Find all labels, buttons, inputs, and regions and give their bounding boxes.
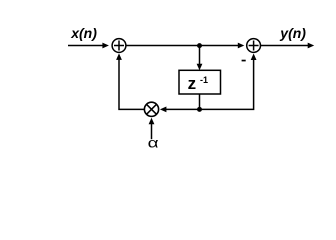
wire: alpha input rising into multiplier [151, 123, 153, 139]
minus sign at A2 lower-left input [242, 60, 246, 62]
svg-text:y(n): y(n) [279, 25, 306, 41]
wire: delay block bottom to bottom junction [199, 94, 201, 109]
arrowhead into A2 bottom [251, 54, 257, 61]
svg-text:-1: -1 [200, 75, 208, 85]
node: junction dot on bottom wire [197, 107, 202, 112]
arrowhead output y(n) [308, 43, 315, 49]
arrowhead into adder A1 left [102, 43, 109, 49]
delay block z^-1 rectangle [179, 70, 221, 94]
wire: bottom feedback left segment into multiplier [165, 108, 200, 110]
wire: bottom feedback right segment and up to A2 [200, 59, 254, 109]
svg-text:z: z [188, 74, 197, 93]
arrowhead into M1 bottom [149, 118, 155, 125]
adder A1 circle [112, 39, 126, 53]
arrowhead into delay block top [197, 64, 203, 71]
wire: A1 output to A2 [126, 45, 238, 47]
svg-text:α: α [148, 135, 159, 151]
arrowhead into adder A2 left [238, 43, 245, 49]
wire: output line to y(n) [261, 45, 309, 47]
arrowhead into multiplier right [160, 107, 167, 113]
multiplier M1 circle [144, 102, 158, 116]
node: junction dot on top wire [197, 43, 202, 48]
plus sign in A2 [249, 41, 259, 51]
wire: multiplier output left then up into A1 bottom [119, 59, 144, 109]
svg-text:x(n): x(n) [70, 25, 97, 41]
times sign in M1 [147, 104, 157, 114]
arrowhead into A1 bottom [116, 53, 122, 60]
wire: from top junction down into delay block [199, 46, 201, 65]
adder A2 circle [247, 39, 261, 53]
plus sign in A1 [114, 41, 124, 51]
wire: input line for x(n) [68, 45, 104, 47]
